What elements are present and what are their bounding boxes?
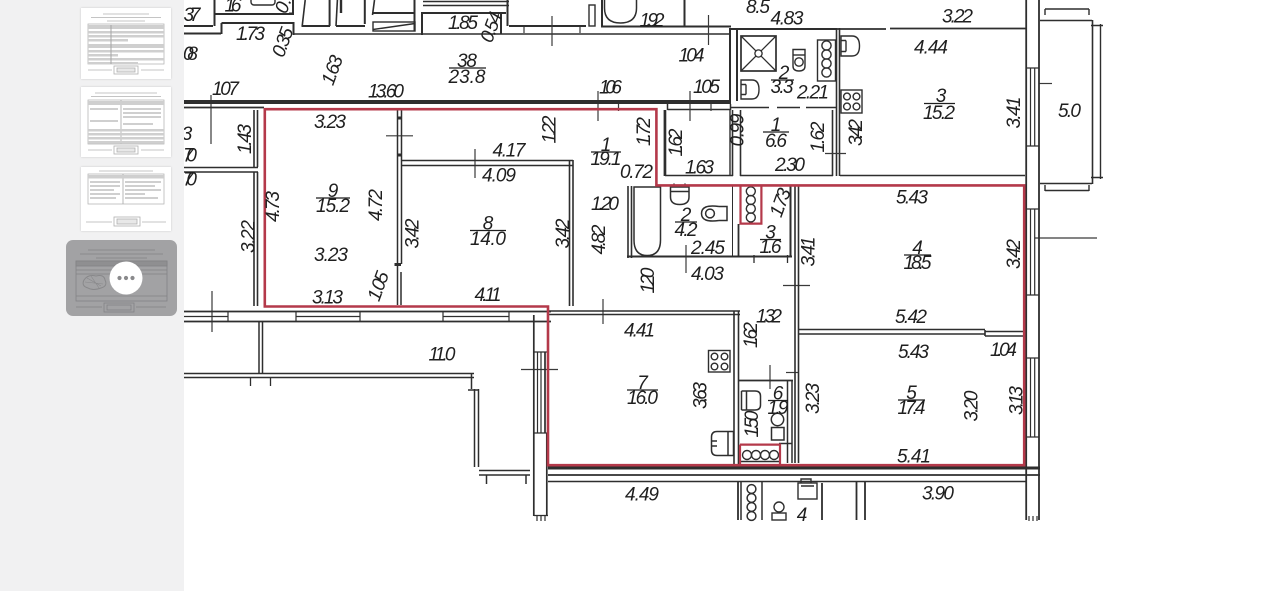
red shaft box top xyxy=(741,185,762,223)
wall room6 top xyxy=(739,380,793,382)
svg-text:1.63: 1.63 xyxy=(318,52,348,88)
washbasin bathroom xyxy=(671,184,690,205)
balcony rail ticks xyxy=(251,377,271,386)
svg-text:4.49: 4.49 xyxy=(625,485,659,506)
svg-text:3.13: 3.13 xyxy=(312,288,343,309)
svg-text:106: 106 xyxy=(599,78,622,99)
wall top-left unit riser xyxy=(214,0,216,26)
svg-text:107: 107 xyxy=(212,79,240,100)
svg-text:4.72: 4.72 xyxy=(366,189,387,221)
svg-text:0.99: 0.99 xyxy=(728,113,749,146)
wall x422 xyxy=(421,12,423,35)
washer room7 xyxy=(712,432,734,456)
balcony lower-left rail xyxy=(184,374,474,378)
balcony top right outer rail xyxy=(1091,24,1103,179)
svg-text:5.43: 5.43 xyxy=(898,342,929,363)
door jamb+sill apt107 right xyxy=(336,0,365,26)
comb pillar right bottom xyxy=(1029,516,1037,521)
wall 1.85 niche top xyxy=(423,12,506,14)
wall kitchen left xyxy=(837,28,840,176)
balcony lower bottom rail xyxy=(479,471,530,485)
wall bathroom192 left xyxy=(601,0,603,26)
svg-text:1.43: 1.43 xyxy=(235,124,256,154)
wall bathroom bottom xyxy=(627,256,792,258)
window band rooms9-8 bottom xyxy=(184,312,551,322)
lower toilet xyxy=(772,502,786,520)
svg-text:08: 08 xyxy=(184,44,198,65)
svg-text:4.09: 4.09 xyxy=(482,166,516,187)
wall stub xyxy=(340,0,342,13)
wall neighbor left room divider vertical xyxy=(254,110,258,306)
stairs landing xyxy=(373,22,415,31)
svg-text:4.44: 4.44 xyxy=(914,38,948,59)
balcony top right box xyxy=(1040,20,1093,184)
svg-text:0.54: 0.54 xyxy=(477,9,507,45)
svg-text:37: 37 xyxy=(184,5,202,26)
svg-text:19.1: 19.1 xyxy=(591,149,622,170)
toilet shower unit xyxy=(793,50,805,72)
comb pillar left bottom xyxy=(534,516,548,522)
svg-text:3.41: 3.41 xyxy=(799,237,820,267)
door leaf apt107 right xyxy=(336,0,337,26)
shower drain xyxy=(755,50,762,57)
door leaf apt107 left xyxy=(302,0,305,26)
tick room6 right xyxy=(786,372,798,374)
wall kitchen bottom xyxy=(840,175,1025,177)
radiator shower unit xyxy=(818,40,836,81)
svg-text:70: 70 xyxy=(184,170,197,191)
svg-text:2.45: 2.45 xyxy=(690,238,725,259)
svg-text:6.6: 6.6 xyxy=(765,131,787,152)
tick window left xyxy=(521,369,558,371)
svg-text:1.72: 1.72 xyxy=(634,117,655,146)
svg-text:8.5: 8.5 xyxy=(746,0,770,18)
balcony top right xyxy=(1045,9,1089,15)
svg-text:5.41: 5.41 xyxy=(897,447,931,468)
corridor lower line y34 xyxy=(294,33,731,35)
lower radiator box xyxy=(741,482,762,520)
svg-text:3.22: 3.22 xyxy=(942,7,973,28)
door ticks wc bottom xyxy=(754,255,788,263)
svg-text:4.03: 4.03 xyxy=(691,264,724,285)
stairs slope line xyxy=(373,24,415,30)
wall room9-room8 divider xyxy=(398,110,402,305)
radiator shaft bottom circles xyxy=(743,451,779,460)
wall 2.30 room bottom left piece xyxy=(729,110,731,176)
tick dim corridor 3.41 xyxy=(783,285,810,287)
svg-text:4.41: 4.41 xyxy=(624,321,655,342)
svg-text:4.11: 4.11 xyxy=(475,285,502,306)
svg-text:18.5: 18.5 xyxy=(904,253,932,274)
svg-text:105: 105 xyxy=(693,77,720,98)
svg-text:70: 70 xyxy=(184,146,197,167)
wall top-left unit right jamb xyxy=(289,0,294,15)
thumbnail 2 (document page) xyxy=(81,87,171,157)
window separators xyxy=(228,312,509,322)
svg-text:3.22: 3.22 xyxy=(239,220,260,253)
svg-text:3.20: 3.20 xyxy=(962,390,983,421)
window left room7 hatch xyxy=(534,352,548,433)
bathtub 1.92 xyxy=(605,0,637,23)
pillar left of room7 xyxy=(534,315,547,516)
svg-text:3.13: 3.13 xyxy=(1007,386,1028,415)
svg-text:0.72: 0.72 xyxy=(620,162,653,183)
wall top-left unit lower edge xyxy=(184,25,213,27)
svg-text:4: 4 xyxy=(797,505,808,526)
svg-text:3.90: 3.90 xyxy=(922,484,954,505)
tick dim 2.45 xyxy=(685,245,687,273)
wall shower unit top xyxy=(731,28,836,30)
shower diagonals xyxy=(741,36,776,71)
door leaf stairs xyxy=(373,0,375,15)
wall apartment bottom xyxy=(548,467,1040,470)
right wall window separators xyxy=(1026,68,1039,437)
wall x507 xyxy=(507,0,509,26)
wall top-left unit upper edge xyxy=(214,13,293,15)
svg-text:15.2: 15.2 xyxy=(923,103,955,124)
shaft bottom inner line xyxy=(741,461,779,463)
washbasin shower unit xyxy=(741,80,759,99)
door jamb+sill apt107 left xyxy=(302,0,331,26)
svg-text:1.85: 1.85 xyxy=(448,13,478,34)
svg-text:1.6: 1.6 xyxy=(760,237,782,258)
room box 1.63 xyxy=(665,110,733,176)
svg-text:4.83: 4.83 xyxy=(771,9,804,30)
red outline apartment xyxy=(265,109,1024,465)
wall kitchen top / units top right xyxy=(731,28,1026,31)
washer room6 xyxy=(742,391,761,410)
wall neighbor left rooms divider horizontal xyxy=(184,168,258,173)
wall apartment top main xyxy=(184,100,731,104)
tick dim 1.43 wall xyxy=(386,135,413,137)
svg-text:104: 104 xyxy=(679,46,705,67)
svg-text:1.50: 1.50 xyxy=(742,410,763,437)
svg-text:1.92: 1.92 xyxy=(640,11,665,32)
svg-text:5.0: 5.0 xyxy=(1058,101,1081,122)
svg-text:3.3: 3.3 xyxy=(771,77,794,98)
svg-text:1.20: 1.20 xyxy=(638,267,659,293)
svg-text:11.0: 11.0 xyxy=(429,345,456,366)
lower unit walls xyxy=(738,482,865,520)
door dashes room9 wall xyxy=(395,118,402,265)
wall y26 under 104-room xyxy=(509,25,731,28)
wall corridor-room45 xyxy=(795,186,799,463)
bathtub xyxy=(634,187,661,256)
wall apt105 door recess xyxy=(668,104,731,110)
tick right wall window1 xyxy=(1039,83,1052,85)
thumbnail 1 (document page) xyxy=(81,8,171,79)
svg-text:3: 3 xyxy=(184,124,193,145)
svg-text:23.8: 23.8 xyxy=(448,67,486,88)
wall lower units top xyxy=(548,481,1026,483)
wall top band over 1.85 xyxy=(423,2,509,6)
overlay menu button xyxy=(110,262,143,295)
tick door 106 xyxy=(598,91,619,121)
radiator shaft top circles xyxy=(746,187,755,222)
svg-text:1.20: 1.20 xyxy=(591,194,619,215)
svg-text:1.62: 1.62 xyxy=(666,128,687,156)
svg-text:1.22: 1.22 xyxy=(540,115,561,143)
door jamb piece xyxy=(589,5,595,26)
svg-text:1.9: 1.9 xyxy=(768,398,789,419)
tick dim 4.17 xyxy=(474,149,476,178)
svg-text:2.21: 2.21 xyxy=(796,83,829,104)
svg-text:3.42: 3.42 xyxy=(1004,239,1025,269)
toilet bathroom xyxy=(702,206,728,221)
window hatch mid lines xyxy=(184,316,509,318)
svg-text:16.0: 16.0 xyxy=(627,388,658,409)
ticks corridor wall xyxy=(524,27,580,33)
tick dim 3.42 kitchen xyxy=(825,153,846,155)
tick door 107 xyxy=(210,95,212,144)
svg-text:4.73: 4.73 xyxy=(263,191,284,222)
svg-text:1.73: 1.73 xyxy=(236,24,265,45)
tick room6 xyxy=(769,365,771,389)
lower sink xyxy=(798,479,817,499)
sink top-left unit xyxy=(251,0,275,5)
wall wc right xyxy=(790,186,792,257)
svg-text:17.4: 17.4 xyxy=(898,398,926,419)
svg-text:5.42: 5.42 xyxy=(895,307,927,328)
stove room7 xyxy=(709,351,731,373)
wall room7 right xyxy=(734,311,739,466)
room box 2.30 xyxy=(740,110,833,176)
right wall window hatches xyxy=(1031,68,1035,437)
tick 104 xyxy=(708,15,710,45)
wall niche 1.73 left xyxy=(184,22,294,35)
thumbnail 4 (selected, with ... overlay) xyxy=(66,240,177,316)
tick right wall room4 xyxy=(1035,237,1097,239)
balcony top right bottom bracket xyxy=(1045,185,1089,191)
tick bottom window9 xyxy=(211,291,213,332)
thumbnail 3 (document page) xyxy=(81,167,171,231)
wall bathroom right xyxy=(732,186,734,257)
tick dim 4.41 xyxy=(602,299,604,324)
svg-text:1.63: 1.63 xyxy=(685,158,714,179)
wall apartment bottom second xyxy=(548,474,1040,476)
wall stairs top xyxy=(372,0,415,31)
svg-text:1.6: 1.6 xyxy=(225,0,242,17)
tick door 38 xyxy=(551,16,553,46)
wall top left double lower line xyxy=(184,107,264,109)
svg-text:3.63: 3.63 xyxy=(691,382,712,409)
svg-text:3.23: 3.23 xyxy=(314,112,346,133)
svg-text:1.62: 1.62 xyxy=(741,322,762,348)
svg-text:3.23: 3.23 xyxy=(314,245,348,266)
svg-text:3.42: 3.42 xyxy=(403,218,424,248)
wall room6 right xyxy=(779,381,792,463)
svg-text:13.60: 13.60 xyxy=(368,82,404,103)
svg-text:1.62: 1.62 xyxy=(808,121,829,152)
tick door 105 xyxy=(690,91,711,121)
svg-text:2.30: 2.30 xyxy=(774,155,805,176)
wall hallway right x664 xyxy=(664,110,666,176)
wall room8 right xyxy=(570,160,574,306)
wall room4-room5 divider xyxy=(798,330,1024,337)
kitchen stove xyxy=(841,90,862,113)
wall unit104 right xyxy=(730,28,737,101)
svg-text:1.05: 1.05 xyxy=(364,268,394,304)
red shaft box bottom xyxy=(740,445,780,466)
svg-text:3.23: 3.23 xyxy=(803,383,824,414)
svg-text:1.04: 1.04 xyxy=(990,340,1017,361)
wall wc left xyxy=(738,224,740,257)
wall bathroom left xyxy=(628,186,632,258)
balcony wall riser xyxy=(259,322,263,374)
svg-text:15.2: 15.2 xyxy=(316,196,350,217)
wall room8 top xyxy=(401,161,573,166)
shower cabin xyxy=(741,36,776,71)
svg-text:3.42: 3.42 xyxy=(553,218,574,248)
svg-text:4.82: 4.82 xyxy=(589,224,610,254)
svg-text:3.42: 3.42 xyxy=(846,119,867,146)
wall bathroom192 right xyxy=(684,0,686,27)
wall room7 top xyxy=(548,311,740,315)
wall shower unit bottom xyxy=(730,107,836,109)
wall 1.85 niche right xyxy=(500,13,502,34)
svg-text:3.41: 3.41 xyxy=(1004,97,1025,129)
sidebar xyxy=(0,0,184,591)
svg-text:5.43: 5.43 xyxy=(896,188,928,209)
balcony lower corner xyxy=(468,374,479,467)
toilet room6 xyxy=(771,413,784,440)
svg-text:14.0: 14.0 xyxy=(470,229,506,250)
svg-text:4.17: 4.17 xyxy=(493,141,527,162)
kitchen sink xyxy=(841,36,860,56)
right exterior wall xyxy=(1026,0,1039,520)
